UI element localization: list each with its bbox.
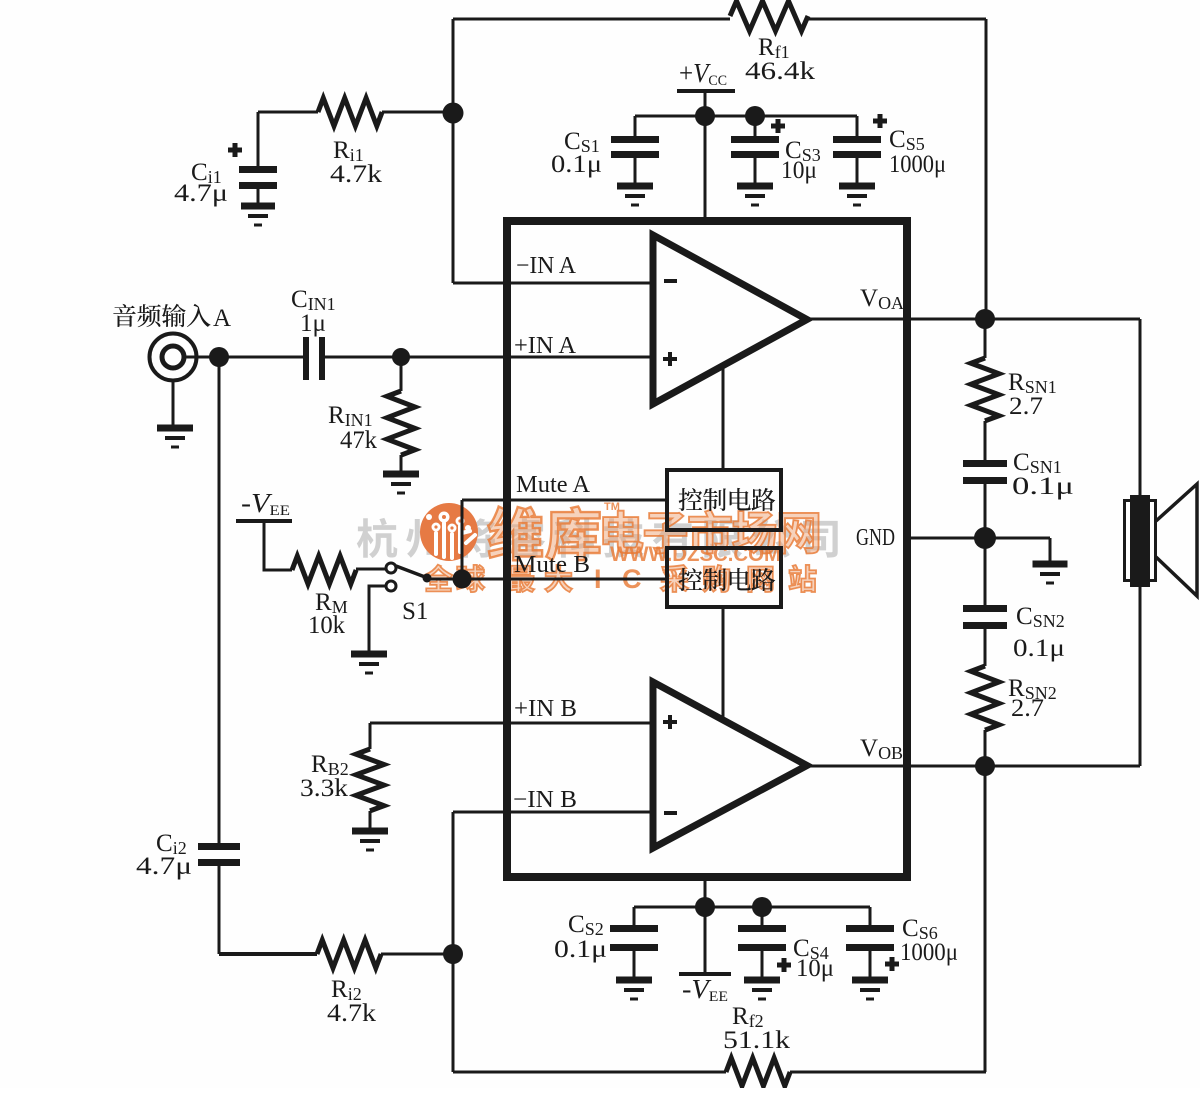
- svg-text:A: A: [213, 305, 231, 332]
- svg-text:0.1μ: 0.1μ: [1013, 635, 1065, 662]
- svg-text:S1: S1: [402, 598, 428, 625]
- capacitor CSN2: [984, 538, 987, 606]
- resistor RSN1: [984, 319, 987, 358]
- svg-text:1000μ: 1000μ: [900, 939, 958, 966]
- node RIN1 junction: [392, 348, 410, 366]
- switch S1: [386, 563, 396, 573]
- node Ri1 junction: [443, 103, 464, 124]
- wire +IN B: [370, 722, 653, 725]
- capacitor CS5: [856, 116, 859, 137]
- svg-text:−IN A: −IN A: [516, 253, 577, 279]
- op-amp B: [653, 682, 807, 848]
- watermark gray company name: [357, 518, 838, 558]
- control box A: [667, 470, 781, 530]
- capacitor CS2: [633, 907, 636, 926]
- ground RB2: [352, 828, 388, 835]
- wire -IN B: [453, 811, 653, 814]
- ground CS1: [617, 183, 653, 190]
- svg-text:+IN A: +IN A: [514, 333, 577, 359]
- power -VEE bottom: [704, 877, 707, 972]
- wire GND: [911, 537, 1050, 540]
- wire S1 to ground: [369, 586, 386, 652]
- node VOA junction: [975, 309, 995, 329]
- wire left vertical bottom: [452, 812, 455, 1072]
- svg-text:10k: 10k: [308, 612, 345, 639]
- svg-text:2.7: 2.7: [1011, 695, 1044, 722]
- ground RIN1: [383, 471, 419, 478]
- speaker: [1130, 495, 1150, 587]
- node GND junction: [974, 527, 996, 549]
- node input junction: [209, 347, 229, 367]
- capacitor CS3: [754, 116, 757, 137]
- wire VOA: [807, 318, 1140, 321]
- resistor Rf1: [730, 1, 808, 31]
- svg-text:4.7k: 4.7k: [327, 1000, 377, 1027]
- capacitor Ci2: [218, 357, 221, 844]
- wire left vertical to -IN A: [452, 19, 455, 283]
- svg-text:46.4k: 46.4k: [745, 58, 816, 85]
- wire VCC rail: [635, 115, 857, 118]
- svg-text:3.3k: 3.3k: [300, 775, 349, 802]
- wire +IN A: [401, 356, 653, 359]
- capacitor Ci1: [257, 112, 260, 167]
- wire -IN A: [453, 282, 653, 285]
- svg-text:4.7μ: 4.7μ: [136, 853, 192, 880]
- wire CIN1 to IC: [325, 356, 653, 359]
- resistor Ri2: [219, 952, 317, 956]
- svg-text:47k: 47k: [340, 427, 377, 454]
- wire input to CIN1: [184, 356, 304, 359]
- wire control box B to opamp B: [722, 607, 725, 719]
- svg-text:2.7: 2.7: [1009, 393, 1043, 420]
- resistor RM: [292, 556, 356, 584]
- wire opamp A to control box: [722, 368, 725, 470]
- wire bottom feedback: [453, 1071, 726, 1074]
- resistor Ri1: [258, 111, 318, 114]
- ground input: [157, 425, 193, 432]
- op-amp A: [653, 235, 807, 404]
- svg-text:0.1μ: 0.1μ: [554, 936, 607, 963]
- ground CS6: [852, 977, 888, 984]
- svg-text:0.1μ: 0.1μ: [551, 151, 602, 178]
- IC box: [507, 221, 907, 877]
- svg-text:+IN B: +IN B: [514, 696, 577, 722]
- wire speaker top: [1139, 319, 1142, 497]
- resistor Rf2: [726, 1058, 790, 1086]
- ground GND pin: [1033, 561, 1068, 568]
- capacitor CS1: [634, 116, 637, 137]
- ground Ci1: [241, 203, 275, 210]
- svg-text:0.1μ: 0.1μ: [1012, 473, 1074, 500]
- wire right vertical bottom: [984, 766, 987, 1072]
- wire speaker bottom: [1139, 586, 1142, 766]
- capacitor CIN1: [303, 337, 309, 380]
- svg-text:10μ: 10μ: [781, 157, 817, 184]
- node VEE rail: [695, 897, 715, 917]
- node VCC rail: [695, 106, 715, 126]
- watermark logo: [420, 503, 478, 561]
- wire VEE rail: [634, 906, 870, 909]
- ground CS2: [616, 977, 652, 984]
- wire right vertical top: [985, 19, 988, 319]
- capacitor CS4: [761, 907, 764, 926]
- node VOB junction: [975, 756, 995, 776]
- svg-text:1000μ: 1000μ: [889, 151, 946, 178]
- svg-text:4.7μ: 4.7μ: [174, 180, 228, 207]
- svg-text:Mute A: Mute A: [516, 472, 591, 498]
- node S1 junction: [453, 570, 472, 589]
- svg-text:1μ: 1μ: [300, 310, 326, 337]
- svg-text:10μ: 10μ: [796, 955, 834, 982]
- svg-text:4.7k: 4.7k: [330, 161, 383, 188]
- resistor RIN1: [400, 357, 403, 391]
- watermark slogan row: [424, 564, 816, 594]
- capacitor CSN1: [963, 460, 1007, 467]
- watermark orange brand text: [488, 506, 600, 560]
- capacitor CS6: [869, 907, 872, 926]
- svg-text:−IN B: −IN B: [513, 787, 577, 813]
- ground S1: [351, 651, 387, 658]
- wire mute vertical: [461, 500, 464, 579]
- connector audio input A: [150, 334, 197, 381]
- svg-text:51.1k: 51.1k: [723, 1027, 791, 1054]
- svg-text:Mute B: Mute B: [514, 552, 590, 578]
- resistor RSN2: [971, 666, 999, 730]
- svg-text:GND: GND: [856, 525, 895, 551]
- ground CS5: [839, 183, 875, 190]
- control box B: [667, 548, 781, 607]
- ground CS3: [737, 183, 773, 190]
- node Ri2 junction: [443, 944, 463, 964]
- resistor RB2: [369, 723, 372, 749]
- wire top feedback: [453, 18, 730, 21]
- label audio input A: [113, 304, 210, 328]
- wire VOB: [805, 765, 1140, 768]
- ground CS4: [744, 977, 780, 984]
